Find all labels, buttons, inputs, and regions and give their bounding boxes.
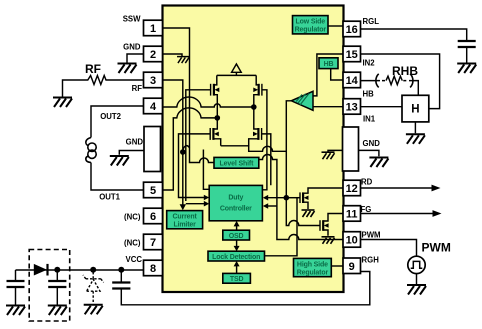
wire LSR to pin16: [328, 25, 343, 27]
svg-text:RGH: RGH: [362, 256, 380, 265]
wire OUT2 to inductor: [91, 106, 144, 138]
pin 6: [144, 208, 163, 224]
pin 14: [343, 72, 361, 88]
wire pin2 to external ground: [127, 54, 144, 63]
svg-text:HB: HB: [324, 61, 334, 68]
wire level shift right to duty and PWM pin10: [259, 155, 343, 240]
wire IN2 pin15 to comparator: [313, 54, 343, 96]
internal ground right GND pin: [322, 152, 335, 159]
svg-text:13: 13: [346, 102, 358, 114]
wire inductor to OUT1: [91, 163, 144, 191]
svg-text:RF: RF: [132, 84, 143, 93]
supply delta symbol: [232, 64, 242, 75]
wire HB to pin14: [331, 69, 343, 80]
resistor RF: [63, 76, 144, 97]
wire PWM source to ground: [416, 274, 418, 284]
wire RGL pin16 to C4: [361, 29, 467, 40]
svg-text:4: 4: [150, 101, 157, 113]
PWM source V1: [408, 256, 425, 273]
pin 15: [343, 46, 361, 62]
wire right GND pin internal: [328, 150, 343, 151]
svg-text:RD: RD: [361, 178, 373, 187]
left GND pin: [144, 127, 161, 172]
block Current Limiter: [167, 211, 203, 229]
svg-text:10: 10: [346, 235, 358, 247]
junction dot node VCC-c: [118, 267, 124, 273]
pin 4: [144, 98, 163, 114]
svg-text:IN2: IN2: [363, 59, 376, 68]
wire hall to ground: [414, 122, 416, 133]
junction dot RF node: [180, 149, 186, 155]
wire HSR to pin9: [331, 265, 343, 267]
svg-text:Current: Current: [172, 214, 197, 221]
pin 5: [144, 182, 163, 198]
pin 9: [343, 258, 361, 274]
wire RD output: [361, 187, 436, 189]
svg-text:SSW: SSW: [123, 15, 141, 24]
svg-text:9: 9: [349, 261, 355, 273]
wire Q1 gate: [186, 90, 211, 201]
svg-text:RGL: RGL: [363, 17, 380, 26]
wire OSD to lock detection arrow: [236, 240, 238, 247]
svg-text:PWM: PWM: [362, 230, 381, 239]
internal ground Q6: [322, 237, 335, 244]
hall sensor H: [402, 95, 429, 122]
svg-text:HB: HB: [363, 90, 375, 99]
svg-text:Limiter: Limiter: [173, 222, 196, 229]
ground C2: [48, 306, 67, 316]
svg-text:PWM: PWM: [422, 241, 451, 255]
ground PWM source: [407, 285, 426, 295]
wire comp node arrow into duty: [267, 197, 287, 199]
block High Side Regulator: [294, 258, 332, 276]
pin 2: [144, 46, 163, 62]
block Lock Detection: [208, 251, 265, 261]
svg-text:Controller: Controller: [220, 206, 252, 213]
svg-text:14: 14: [346, 75, 359, 87]
svg-text:VCC: VCC: [126, 255, 143, 264]
svg-text:High Side: High Side: [297, 261, 328, 268]
svg-text:GND: GND: [123, 43, 141, 52]
pin 10: [343, 232, 361, 248]
wire IN1 pin13 to comparator: [313, 106, 343, 108]
transistor Q4 bottom-right NMOS: [249, 107, 259, 146]
svg-text:FG: FG: [361, 205, 372, 214]
svg-text:RHB: RHB: [392, 64, 418, 78]
ground right GND pin: [369, 158, 388, 168]
svg-text:6: 6: [150, 211, 156, 223]
wire comp node to FG gate: [286, 198, 320, 226]
inductor L1: [86, 138, 91, 146]
transistor Q2 top-right PMOS: [254, 75, 259, 107]
svg-text:8: 8: [150, 263, 156, 275]
ground left GND pin: [110, 156, 129, 166]
svg-text:Level Shift: Level Shift: [220, 161, 255, 168]
wire bridge source rail: [221, 146, 287, 152]
wire pin3 RF to current limiter: [163, 80, 183, 206]
dashed option box: [29, 250, 69, 322]
junction dot OUT1 bridge node: [215, 115, 221, 121]
pin 1: [144, 20, 163, 36]
block Level Shift: [214, 157, 259, 168]
transistor Q1 top-left PMOS: [214, 75, 217, 118]
svg-text:1: 1: [150, 23, 156, 35]
svg-text:Regulator: Regulator: [297, 269, 329, 276]
wire pin1 SSW internal: [163, 28, 215, 163]
pin 13: [343, 99, 361, 115]
pin 3: [144, 72, 163, 88]
capacitor C4: [458, 41, 476, 47]
pin 7: [144, 234, 163, 250]
svg-text:TSD: TSD: [230, 276, 244, 283]
pin 8: [144, 260, 163, 276]
wire C3 to bottom rail to pin9 RGH: [121, 272, 369, 305]
pin 16: [343, 21, 361, 37]
wire PWM pin10 to source: [361, 240, 417, 257]
wire OUT2 internal: [163, 97, 254, 107]
wire comparator output down: [286, 101, 291, 198]
wire left GND pin to ground: [119, 151, 144, 155]
svg-text:Lock Detection: Lock Detection: [212, 254, 260, 261]
svg-text:2: 2: [150, 49, 156, 61]
svg-text:GND: GND: [363, 139, 381, 148]
IC body U1: [163, 6, 344, 293]
junction dot comparator node: [284, 195, 290, 201]
pin 11: [343, 206, 361, 222]
svg-text:(NC): (NC): [124, 239, 141, 248]
pin 12: [343, 180, 361, 196]
wire IN2 pin15 to hall right: [361, 54, 440, 109]
capacitor C1: [15, 270, 17, 280]
svg-text:7: 7: [150, 237, 156, 249]
junction dot node VCC-b: [90, 267, 96, 273]
junction dot node VCC-a: [54, 267, 60, 273]
svg-text:IN1: IN1: [363, 115, 376, 124]
svg-text:12: 12: [346, 183, 358, 195]
svg-text:Duty: Duty: [228, 195, 243, 202]
transistor Q5 RD open drain: [299, 192, 301, 203]
wire lock detection to RD gate node: [265, 198, 298, 256]
wire FG output: [361, 213, 437, 215]
internal ground pin2: [177, 57, 189, 63]
junction dot OUT2 bridge node: [251, 104, 257, 110]
wire comp node to RD gate: [286, 197, 300, 199]
wire Q4 gate: [262, 134, 271, 185]
wire pin2 internal ground: [163, 54, 183, 56]
zener ZD1 (optional, dashed): [83, 272, 104, 303]
block Duty Controller: [209, 185, 262, 220]
wire right GND pin to ground: [359, 150, 379, 156]
svg-text:3: 3: [150, 75, 156, 87]
block HB: [319, 58, 338, 69]
svg-text:Regulator: Regulator: [295, 27, 327, 34]
capacitor C3 bootstrap: [120, 270, 122, 282]
transistor Q3 bottom-left NMOS: [213, 118, 220, 146]
wire Q3 gate: [179, 134, 211, 198]
wire duty top-left feed: [203, 150, 209, 190]
ground ZD1: [84, 305, 103, 315]
wire Q2 gate: [262, 90, 267, 190]
VCC rail wire: [16, 269, 144, 271]
resistor RHB (optional): [361, 80, 381, 82]
svg-text:GND: GND: [126, 138, 144, 147]
svg-text:Low Side: Low Side: [296, 19, 326, 26]
ground hall: [406, 134, 425, 144]
block TSD: [223, 273, 251, 283]
svg-text:OUT2: OUT2: [100, 112, 121, 121]
svg-text:RF: RF: [85, 62, 101, 76]
svg-text:H: H: [411, 104, 419, 116]
svg-text:OUT1: OUT1: [99, 193, 120, 202]
svg-text:(NC): (NC): [124, 213, 141, 222]
diode D1: [34, 264, 47, 276]
svg-text:16: 16: [346, 24, 358, 36]
wire RF node to level shift feed: [183, 146, 190, 151]
right GND pin: [343, 127, 359, 171]
wire OSD to duty arrow: [236, 225, 238, 230]
block Low Side Regulator: [293, 16, 329, 34]
wire OUT1 internal: [163, 108, 218, 190]
svg-text:5: 5: [150, 185, 156, 197]
ground pin2: [118, 64, 137, 74]
internal ground Q5: [302, 210, 315, 217]
svg-text:11: 11: [346, 209, 358, 221]
wire TSD to lock detection arrow: [236, 265, 238, 273]
block OSD: [223, 230, 250, 240]
op-amp comparator U2: [291, 91, 313, 110]
wire IN1 pin13 to hall left: [361, 106, 403, 108]
ground C4: [457, 64, 476, 74]
svg-text:OSD: OSD: [229, 233, 244, 240]
capacitor C2: [56, 270, 58, 280]
H-bridge top rail: [217, 74, 256, 76]
transistor Q6 FG open drain: [319, 220, 321, 231]
ground RF: [53, 98, 72, 108]
ground C1: [6, 306, 25, 316]
wire RHB to hall top: [409, 81, 418, 96]
svg-text:15: 15: [346, 49, 358, 61]
